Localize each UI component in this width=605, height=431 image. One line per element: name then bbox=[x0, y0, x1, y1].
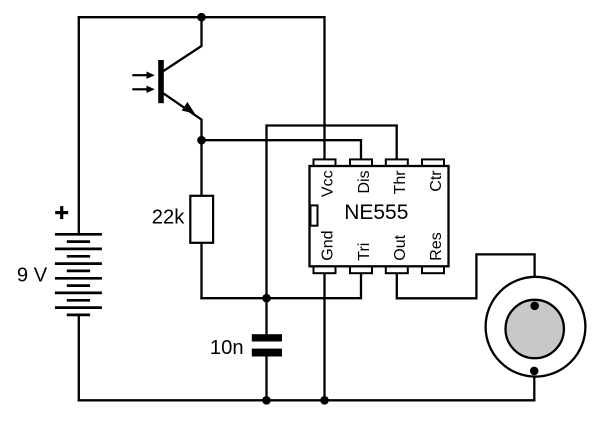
op-amp U1 NE555 pin 8 Res stub bbox=[422, 265, 444, 273]
svg-text:Res: Res bbox=[428, 232, 445, 260]
svg-text:Dis: Dis bbox=[356, 170, 373, 193]
op-amp U1 NE555 pin 1 Vcc stub bbox=[314, 159, 336, 167]
wire node A to resistor R1 top bbox=[200, 140, 202, 196]
light arrow 2 into Q1 bbox=[132, 86, 155, 93]
svg-text:Vcc: Vcc bbox=[320, 170, 337, 197]
svg-text:Gnd: Gnd bbox=[320, 230, 337, 260]
speaker LS1 bottom terminal dot bbox=[530, 367, 539, 376]
svg-text:Out: Out bbox=[392, 234, 409, 260]
light arrow 1 into Q1 bbox=[132, 72, 155, 79]
wire Out pin to speaker LS1 top bbox=[397, 254, 535, 305]
transistor Q1 base bar (phototransistor) bbox=[158, 60, 164, 103]
wire node B up to Thr pin bbox=[267, 126, 397, 299]
svg-text:NE555: NE555 bbox=[344, 201, 408, 224]
wire node A to Dis pin bbox=[202, 140, 362, 161]
wire node B down to capacitor C1 top bbox=[265, 298, 267, 335]
battery B1 9V plates bbox=[55, 234, 102, 315]
capacitor C1 top plate bbox=[252, 334, 282, 341]
junction dot top rail at collector bbox=[197, 13, 206, 22]
wire left rail battery + bbox=[78, 17, 80, 233]
junction dot C1 to ground rail bbox=[262, 396, 271, 405]
capacitor C1 bottom plate bbox=[252, 349, 282, 357]
svg-text:22k: 22k bbox=[152, 207, 185, 229]
wire collector of Q1 to top rail bbox=[164, 17, 202, 71]
wire top rail from battery + to Vcc drop bbox=[79, 17, 325, 161]
wire Gnd pin to ground rail bbox=[323, 272, 325, 400]
wire bottom ground rail bbox=[79, 399, 535, 401]
IC U1 pin-1 notch marker bbox=[311, 205, 318, 225]
IC U1 NE555 body bbox=[310, 166, 449, 266]
transistor Q1 emitter arrowhead bbox=[182, 102, 195, 113]
speaker LS1 outer ring bbox=[486, 277, 586, 377]
op-amp U1 NE555 pin 7 Out stub bbox=[386, 265, 408, 273]
svg-text:10n: 10n bbox=[210, 337, 244, 359]
battery plus sign bbox=[55, 206, 68, 219]
junction dot node A emitter/R1/Dis bbox=[197, 136, 206, 145]
wire resistor R1 bottom to node B rail bbox=[200, 243, 202, 298]
junction dot Gnd to ground rail bbox=[320, 396, 329, 405]
wire node B rail to Tri pin bbox=[202, 272, 362, 298]
svg-text:Thr: Thr bbox=[392, 170, 409, 195]
svg-text:9 V: 9 V bbox=[17, 264, 48, 286]
op-amp U1 NE555 pin 6 Tri stub bbox=[350, 265, 372, 273]
junction dot node B R1/Tri/Thr/C1 bbox=[262, 294, 271, 303]
resistor R1 22k body bbox=[190, 196, 213, 243]
svg-text:Ctr: Ctr bbox=[428, 170, 445, 192]
speaker LS1 top terminal dot bbox=[530, 302, 539, 311]
op-amp U1 NE555 pin 3 Thr stub bbox=[386, 159, 408, 167]
wire emitter of Q1 down to node A bbox=[164, 94, 202, 141]
op-amp U1 NE555 pin 2 Dis stub bbox=[350, 159, 372, 167]
svg-text:Tri: Tri bbox=[356, 243, 373, 261]
op-amp U1 NE555 pin 4 Ctr stub bbox=[422, 159, 444, 167]
wire speaker LS1 bottom to ground rail bbox=[533, 371, 535, 400]
op-amp U1 NE555 pin 5 Gnd stub bbox=[314, 265, 336, 273]
wire capacitor C1 bottom to ground rail bbox=[265, 356, 267, 400]
speaker LS1 cone bbox=[506, 300, 564, 358]
wire battery minus to bottom rail bbox=[78, 315, 80, 400]
